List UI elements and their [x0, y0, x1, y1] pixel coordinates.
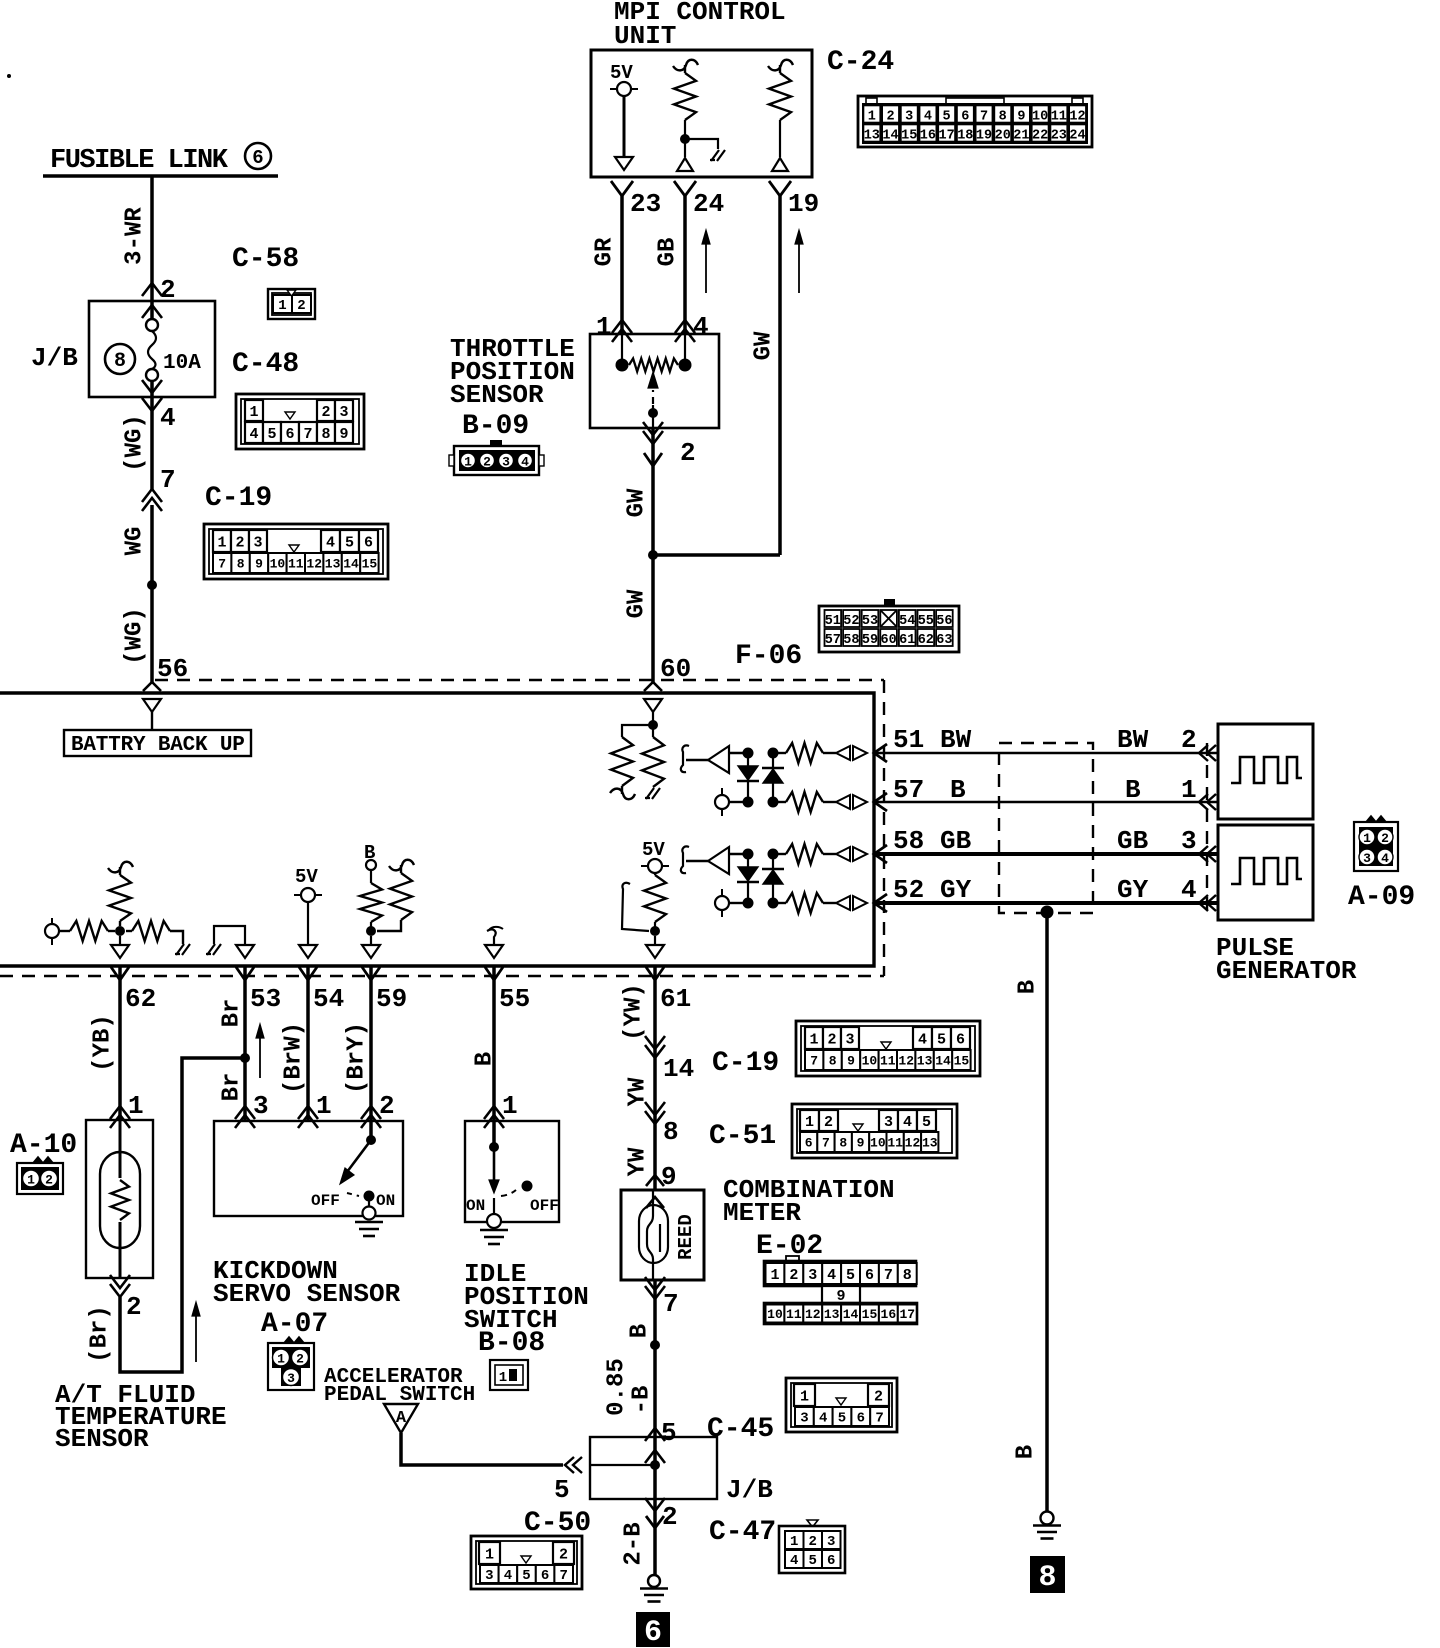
svg-text:13: 13 — [922, 1136, 938, 1151]
svg-text:4: 4 — [160, 403, 176, 433]
svg-text:REED: REED — [675, 1214, 697, 1260]
svg-text:0.85: 0.85 — [603, 1358, 630, 1416]
svg-text:11: 11 — [288, 557, 304, 572]
connector C-24 — [858, 96, 1092, 147]
svg-text:13: 13 — [824, 1307, 840, 1322]
svg-text:7: 7 — [822, 1136, 830, 1151]
svg-text:GY: GY — [1117, 875, 1149, 905]
terminal marks pulse generator — [1199, 745, 1208, 761]
svg-text:C-47: C-47 — [709, 1517, 776, 1548]
5V supply circle in MPI unit — [610, 88, 638, 90]
row series resistor — [773, 801, 786, 803]
svg-text:6: 6 — [285, 426, 294, 443]
svg-text:16: 16 — [881, 1307, 897, 1322]
svg-text:3: 3 — [845, 1031, 854, 1048]
junction idle switch — [489, 1142, 499, 1152]
opto receiver input circle — [721, 889, 723, 917]
svg-text:A-09: A-09 — [1348, 882, 1415, 913]
connector mark kickdown pin 2 — [361, 1106, 381, 1119]
switch arm idle — [493, 1147, 496, 1182]
wire B down to ground — [1045, 912, 1049, 1512]
OFF contact dot idle — [522, 1181, 533, 1192]
ground idle switch — [480, 1229, 508, 1232]
svg-text:2: 2 — [1381, 831, 1389, 846]
svg-text:J/B: J/B — [31, 343, 78, 373]
svg-text:53: 53 — [862, 614, 878, 629]
svg-text:B: B — [950, 775, 966, 805]
terminal fork pin 54 — [299, 967, 317, 980]
svg-text:7: 7 — [663, 1289, 679, 1319]
svg-text:57: 57 — [825, 633, 841, 648]
svg-text:2: 2 — [680, 438, 696, 468]
svg-text:10: 10 — [270, 557, 286, 572]
TPS wiper junction — [648, 408, 658, 418]
svg-text:20: 20 — [995, 129, 1011, 144]
square wave symbol 2 — [1231, 858, 1302, 884]
left bracket hook pin 61 — [622, 883, 649, 931]
BATTRY BACK UP label box — [64, 730, 251, 756]
MPI control unit box — [591, 50, 812, 177]
open triangle output to pin 23 — [615, 157, 633, 170]
svg-text:7: 7 — [875, 1411, 883, 1427]
pulse generator box 2 — [1218, 825, 1313, 920]
svg-text:YW: YW — [624, 1077, 651, 1106]
svg-text:14: 14 — [935, 1054, 951, 1069]
svg-text:C-24: C-24 — [827, 47, 894, 78]
svg-text:1: 1 — [809, 1031, 818, 1048]
connector C-50 — [471, 1536, 582, 1589]
svg-text:59: 59 — [862, 633, 878, 648]
wire GB pin24 to TPS 4 — [683, 196, 687, 334]
ground ref black box 6 — [636, 1612, 670, 1647]
svg-text:14: 14 — [663, 1054, 694, 1084]
throttle position sensor box — [590, 334, 719, 428]
sensor wire top — [119, 1120, 122, 1178]
svg-text:BW: BW — [1117, 725, 1149, 755]
connector mark pin 2 into J/B — [142, 283, 162, 296]
svg-text:6: 6 — [827, 1553, 835, 1569]
svg-text:12: 12 — [805, 1307, 821, 1322]
TPS track junction right — [679, 359, 692, 372]
wire B pin 57 — [874, 801, 1218, 804]
svg-text:1: 1 — [502, 1091, 518, 1121]
row junction right — [768, 748, 779, 759]
svg-text:5: 5 — [943, 110, 951, 125]
svg-text:3-WR: 3-WR — [121, 207, 148, 265]
wire below resistor 24 — [684, 120, 686, 157]
svg-text:(WG): (WG) — [121, 414, 148, 472]
thermistor resistor — [111, 1180, 129, 1220]
svg-text:62: 62 — [125, 984, 156, 1014]
connector C-45 — [786, 1378, 897, 1432]
open triangle pin 59 — [370, 936, 372, 945]
opto pair 1 (pins 51/57) — [681, 745, 689, 772]
svg-text:63: 63 — [936, 633, 952, 648]
resistor pin 61 — [644, 875, 666, 922]
svg-text:6: 6 — [805, 1136, 813, 1151]
row series resistor — [773, 752, 786, 754]
connector mark into J/B — [565, 1457, 574, 1473]
fuse 10A lower terminal circle — [146, 369, 158, 381]
terminal fork pin 23 — [611, 181, 633, 196]
svg-text:5V: 5V — [295, 866, 318, 888]
wire below fuse — [150, 381, 154, 490]
connector C-19 — [204, 524, 388, 579]
svg-text:(YW): (YW) — [620, 983, 647, 1041]
wire to battery backup label — [151, 712, 153, 730]
junction GW wires — [648, 550, 658, 560]
open triangle pin 54 — [299, 945, 317, 958]
wire GW pin19 horizontal to junction — [653, 553, 780, 557]
svg-text:2: 2 — [379, 1091, 395, 1121]
terminal fork pin 53 — [236, 967, 254, 980]
svg-text:16: 16 — [920, 129, 936, 144]
terminal fork pin 19 — [769, 181, 791, 196]
svg-text:8: 8 — [663, 1117, 679, 1147]
square wave symbol 1 — [1231, 757, 1302, 783]
TCU dashed boundary top — [155, 679, 884, 681]
fuse 10A upper terminal circle — [146, 319, 158, 331]
A/T fluid temperature sensor box — [86, 1120, 153, 1278]
pulse generator box 1 — [1218, 724, 1313, 819]
svg-text:3: 3 — [339, 404, 348, 421]
svg-text:ON: ON — [466, 1197, 485, 1215]
junction JB2 — [650, 1460, 660, 1470]
svg-text:(WG): (WG) — [121, 607, 148, 665]
svg-text:METER: METER — [723, 1198, 801, 1228]
open triangle pin 53 — [236, 945, 254, 958]
svg-text:(BrW): (BrW) — [280, 1022, 307, 1094]
wire 55 in idle switch — [493, 1121, 495, 1147]
TPS wiper wire out — [652, 405, 654, 428]
svg-text:2: 2 — [483, 455, 491, 470]
svg-text:23: 23 — [1051, 129, 1067, 144]
row series resistor — [773, 853, 786, 855]
svg-text:(BrY): (BrY) — [343, 1022, 370, 1094]
svg-text:OFF: OFF — [311, 1192, 340, 1210]
svg-text:1: 1 — [464, 455, 472, 470]
svg-text:GW: GW — [623, 589, 650, 618]
svg-text:5V: 5V — [642, 839, 665, 861]
ground kickdown — [355, 1221, 383, 1224]
svg-text:23: 23 — [630, 189, 661, 219]
svg-text:8: 8 — [903, 1267, 912, 1284]
svg-text:8: 8 — [829, 1054, 837, 1069]
svg-text:2: 2 — [886, 110, 894, 125]
internal ground branch MPI — [685, 139, 718, 149]
svg-text:10: 10 — [870, 1136, 886, 1151]
wire GB pin 58 — [874, 852, 1218, 856]
svg-text:C-50: C-50 — [524, 1508, 591, 1539]
opto receiver input circle — [721, 788, 723, 816]
svg-text:SENSOR: SENSOR — [450, 380, 544, 410]
svg-text:11: 11 — [1051, 110, 1067, 125]
svg-text:5: 5 — [937, 1031, 946, 1048]
connector mark kickdown pin 1 — [298, 1106, 318, 1119]
svg-text:3: 3 — [808, 1267, 817, 1284]
row junction left — [743, 849, 754, 860]
fusible link bus underline — [43, 174, 278, 178]
svg-text:7: 7 — [303, 426, 312, 443]
open triangle battery backup — [143, 699, 161, 712]
svg-text:3: 3 — [827, 1534, 835, 1550]
svg-text:SENSOR: SENSOR — [55, 1424, 149, 1454]
svg-text:61: 61 — [660, 984, 691, 1014]
kickdown servo sensor box — [214, 1121, 403, 1216]
pullup resistor to pin 19 — [768, 60, 793, 73]
pin 62 series resistor B — [126, 930, 132, 932]
junction below pin 60 — [648, 720, 658, 730]
svg-text:2: 2 — [126, 1292, 142, 1322]
svg-text:1: 1 — [790, 1534, 798, 1550]
fuse 10A element — [148, 331, 156, 369]
svg-text:GB: GB — [654, 238, 681, 267]
svg-text:13: 13 — [864, 129, 880, 144]
svg-text:51: 51 — [893, 725, 924, 755]
TPS wire stub pin4 — [684, 334, 686, 365]
diode up — [772, 854, 774, 868]
wire GY pin 52 — [874, 901, 1218, 905]
connector mark pin 7 C-19 — [142, 489, 162, 502]
svg-text:GENERATOR: GENERATOR — [1216, 956, 1357, 986]
TCU dashed boundary right — [883, 680, 885, 976]
pullup resistor pin 62 — [108, 862, 133, 875]
svg-text:11: 11 — [880, 1054, 896, 1069]
amplifier triangle 58 — [708, 847, 729, 874]
chassis ground below resistor — [645, 788, 660, 799]
switch dash kickdown — [347, 1193, 359, 1196]
svg-text:9: 9 — [857, 1136, 865, 1151]
svg-text:B-08: B-08 — [478, 1328, 545, 1359]
switch dash idle — [501, 1190, 516, 1196]
svg-text:1: 1 — [27, 1173, 35, 1188]
svg-text:1: 1 — [499, 1370, 507, 1386]
svg-text:15: 15 — [862, 1307, 878, 1322]
svg-text:12: 12 — [905, 1136, 921, 1151]
wire GW pin19 down — [778, 196, 782, 555]
direction arrow Br — [259, 1030, 261, 1078]
svg-text:1: 1 — [770, 1267, 779, 1284]
connector C-51 — [792, 1104, 957, 1158]
svg-text:1: 1 — [217, 534, 226, 551]
connector C-58 — [268, 289, 315, 319]
svg-text:1: 1 — [868, 110, 876, 125]
svg-text:GB: GB — [1117, 826, 1149, 856]
svg-text:6: 6 — [857, 1411, 865, 1427]
svg-text:7: 7 — [980, 110, 988, 125]
svg-text:4: 4 — [693, 312, 709, 342]
row junction right — [768, 898, 779, 909]
sensor wire bottom — [119, 1222, 122, 1278]
connector mark below JB2 — [645, 1498, 665, 1511]
svg-text:B: B — [626, 1324, 653, 1338]
terminal fork right edge — [874, 845, 887, 863]
svg-text:4: 4 — [504, 1568, 512, 1584]
svg-text:5: 5 — [661, 1418, 677, 1448]
svg-text:(YB): (YB) — [89, 1014, 116, 1072]
svg-text:1: 1 — [316, 1091, 332, 1121]
svg-text:2: 2 — [824, 1114, 833, 1131]
svg-text:5: 5 — [554, 1475, 570, 1505]
svg-text:57: 57 — [893, 775, 924, 805]
svg-text:4: 4 — [790, 1553, 798, 1569]
svg-text:60: 60 — [880, 633, 896, 648]
svg-text:56: 56 — [936, 614, 952, 629]
svg-text:19: 19 — [788, 189, 819, 219]
svg-text:51: 51 — [825, 614, 841, 629]
svg-text:58: 58 — [843, 633, 859, 648]
direction arrow wire 19 — [798, 236, 800, 293]
svg-text:4: 4 — [918, 1031, 927, 1048]
svg-text:F-06: F-06 — [735, 641, 802, 672]
terminal fork pin 61 — [646, 967, 664, 980]
terminal mark reed input — [646, 1175, 664, 1186]
connector C-19 meter — [796, 1021, 980, 1076]
svg-text:2: 2 — [235, 534, 244, 551]
terminal fork right edge — [874, 894, 887, 912]
svg-text:61: 61 — [899, 633, 915, 648]
svg-text:1: 1 — [485, 1546, 494, 1563]
svg-text:1: 1 — [800, 1388, 809, 1405]
svg-text:3: 3 — [1363, 851, 1371, 866]
wire 59 into switch — [370, 1121, 372, 1140]
connector mark pin 4 below J/B — [142, 398, 162, 411]
combination meter reed box — [621, 1190, 704, 1280]
svg-text:A-10: A-10 — [10, 1130, 77, 1161]
svg-text:5: 5 — [345, 534, 354, 551]
scan artifact dot — [7, 74, 11, 78]
svg-text:1: 1 — [249, 404, 258, 421]
row junction right — [768, 797, 779, 808]
svg-text:15: 15 — [362, 557, 378, 572]
svg-text:1: 1 — [128, 1091, 144, 1121]
svg-text:9: 9 — [339, 426, 348, 443]
junction block 2 box — [590, 1437, 717, 1499]
svg-text:10: 10 — [1032, 110, 1048, 125]
wire BW pin 51 — [874, 752, 1218, 755]
svg-text:2: 2 — [662, 1502, 678, 1532]
svg-text:5: 5 — [809, 1553, 817, 1569]
wire GW TPS to junction — [651, 428, 655, 684]
svg-text:2: 2 — [789, 1267, 798, 1284]
ground bottom — [648, 1575, 660, 1587]
svg-text:3: 3 — [253, 1091, 269, 1121]
wire from pedal switch — [401, 1433, 563, 1465]
svg-text:4: 4 — [924, 110, 932, 125]
pin 62 junction — [108, 930, 115, 932]
svg-text:6: 6 — [961, 110, 969, 125]
connector mark kickdown pin 3 — [235, 1106, 255, 1119]
svg-text:6: 6 — [644, 1616, 662, 1648]
svg-text:6: 6 — [364, 534, 373, 551]
svg-text:2: 2 — [45, 1173, 53, 1188]
svg-text:8: 8 — [839, 1136, 847, 1151]
svg-text:9: 9 — [847, 1054, 855, 1069]
svg-text:7: 7 — [884, 1267, 893, 1284]
svg-text:C-58: C-58 — [232, 244, 299, 275]
pin 53 ground branch — [214, 926, 245, 945]
svg-text:9: 9 — [255, 557, 263, 572]
svg-text:54: 54 — [313, 984, 344, 1014]
terminal fork right edge — [874, 793, 887, 811]
svg-text:13: 13 — [325, 557, 341, 572]
right resistor below 60 — [652, 729, 654, 737]
pullup resistor to pin 24 — [673, 60, 698, 73]
buffer triangles — [836, 746, 850, 760]
open triangle input pin 19 — [772, 158, 788, 171]
terminal fork right edge — [874, 744, 887, 762]
svg-text:2: 2 — [321, 404, 330, 421]
svg-text:52: 52 — [843, 614, 859, 629]
terminal fork pin 55 — [485, 967, 503, 980]
svg-text:22: 22 — [1032, 129, 1048, 144]
svg-text:54: 54 — [899, 614, 915, 629]
open triangle pin 62 — [119, 936, 121, 945]
svg-text:5: 5 — [846, 1267, 855, 1284]
svg-text:2: 2 — [296, 1352, 304, 1367]
TPS track junction left — [616, 359, 629, 372]
svg-text:4: 4 — [249, 426, 258, 443]
svg-text:7: 7 — [218, 557, 226, 572]
svg-text:8: 8 — [321, 426, 330, 443]
svg-text:2: 2 — [827, 1031, 836, 1048]
wire B pin 55 — [492, 966, 496, 1147]
connector mark idle switch pin 1 — [484, 1106, 504, 1119]
svg-text:24: 24 — [693, 189, 724, 219]
svg-text:55: 55 — [918, 614, 934, 629]
left branch resistor — [622, 725, 649, 737]
connector A-10 — [33, 1157, 53, 1163]
terminal mark pin 56 — [143, 682, 161, 691]
svg-text:59: 59 — [376, 984, 407, 1014]
wire Br pin 53 — [243, 966, 247, 1121]
svg-text:14: 14 — [843, 1307, 859, 1322]
svg-text:4: 4 — [521, 455, 529, 470]
svg-text:GB: GB — [940, 826, 972, 856]
wire BrW pin 54 — [306, 966, 310, 1121]
switch common idle — [493, 1198, 495, 1215]
svg-text:7: 7 — [559, 1568, 567, 1584]
svg-text:7: 7 — [810, 1054, 818, 1069]
svg-text:14: 14 — [882, 129, 898, 144]
terminal fork TPS pin 2 — [644, 453, 662, 466]
buffer triangles — [836, 795, 850, 809]
svg-text:15: 15 — [901, 129, 917, 144]
TPS resistor track — [629, 359, 678, 372]
ON contact dot — [364, 1191, 375, 1202]
svg-text:(Br): (Br) — [86, 1305, 113, 1363]
intermediate connector dashed box — [999, 743, 1093, 913]
hook pin 55 — [487, 929, 496, 944]
connector mark C-51 pin 8 — [645, 1111, 665, 1124]
svg-text:C-19: C-19 — [205, 483, 272, 514]
connector mark top of J/B 2 — [645, 1428, 665, 1441]
svg-text:4: 4 — [1181, 875, 1197, 905]
open triangle pin 55 — [485, 945, 503, 958]
resistor pin 59 — [360, 883, 382, 922]
idle position switch box — [465, 1121, 559, 1222]
svg-text:1: 1 — [278, 298, 286, 314]
svg-text:12: 12 — [306, 557, 322, 572]
terminal mark pin 60 — [644, 682, 662, 691]
connector A-09 — [1366, 816, 1386, 822]
wire GR pin23 to TPS 1 — [620, 196, 624, 334]
svg-text:3: 3 — [1181, 826, 1197, 856]
svg-text:17: 17 — [899, 1307, 915, 1322]
svg-text:ON: ON — [376, 1192, 395, 1210]
svg-text:1: 1 — [596, 312, 612, 342]
svg-text:6: 6 — [956, 1031, 965, 1048]
